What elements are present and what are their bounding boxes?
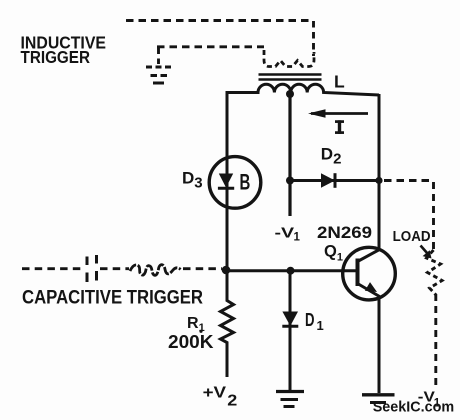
svg-text:D2: D2 [321,145,342,168]
svg-text:-V: -V [275,226,295,242]
svg-text:D: D [305,309,315,330]
svg-text:2N269: 2N269 [317,224,372,242]
svg-text:+V: +V [203,384,227,401]
svg-text:1: 1 [294,231,301,243]
svg-text:TRIGGER: TRIGGER [21,47,91,67]
svg-text:Q1: Q1 [324,243,343,264]
svg-text:1: 1 [317,318,324,333]
svg-text:SeekIC.com: SeekIC.com [373,399,455,416]
svg-text:200K: 200K [168,332,214,352]
svg-text:D3: D3 [182,169,203,192]
svg-text:LOAD: LOAD [393,229,431,245]
svg-text:CAPACITIVE TRIGGER: CAPACITIVE TRIGGER [22,287,203,309]
svg-text:B: B [240,170,251,195]
svg-text:2: 2 [227,393,237,410]
svg-text:L: L [334,72,345,92]
